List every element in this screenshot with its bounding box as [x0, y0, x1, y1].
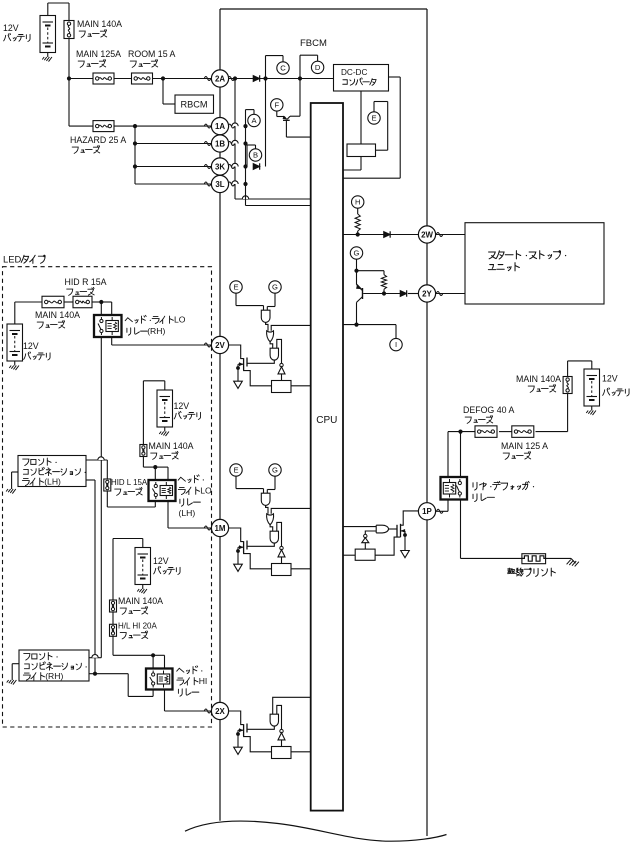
- svg-text:MAIN 140A: MAIN 140A: [35, 310, 80, 320]
- svg-text:DC-DC: DC-DC: [341, 68, 367, 77]
- svg-text:(LH): (LH): [179, 508, 196, 518]
- svg-text:12V: 12V: [153, 556, 169, 566]
- svg-text:2W: 2W: [421, 230, 433, 239]
- svg-text:MAIN 140A: MAIN 140A: [77, 19, 122, 29]
- svg-text:MAIN 140A: MAIN 140A: [149, 441, 194, 451]
- svg-text:H: H: [355, 198, 360, 207]
- svg-text:2A: 2A: [215, 74, 225, 83]
- svg-text:1P: 1P: [422, 507, 432, 516]
- svg-text:(RH): (RH): [147, 326, 165, 336]
- svg-text:E: E: [233, 466, 238, 475]
- svg-text:D: D: [315, 63, 321, 72]
- svg-text:12V: 12V: [174, 401, 190, 411]
- svg-text:LO: LO: [200, 486, 212, 496]
- svg-text:H/L HI 20A: H/L HI 20A: [118, 622, 157, 631]
- svg-text:3L: 3L: [215, 180, 224, 189]
- svg-text:F: F: [274, 101, 279, 110]
- svg-text:FBCM: FBCM: [300, 38, 327, 49]
- svg-text:MAIN 125A: MAIN 125A: [76, 49, 121, 59]
- svg-text:G: G: [272, 283, 278, 292]
- svg-text:1B: 1B: [215, 139, 225, 148]
- svg-text:2X: 2X: [215, 707, 225, 716]
- svg-text:MAIN 140A: MAIN 140A: [118, 596, 163, 606]
- svg-text:(RH): (RH): [45, 671, 63, 681]
- svg-text:MAIN 125 A: MAIN 125 A: [501, 441, 548, 451]
- svg-text:G: G: [354, 249, 360, 258]
- svg-text:DEFOG 40 A: DEFOG 40 A: [463, 405, 514, 415]
- svg-text:ROOM 15 A: ROOM 15 A: [128, 49, 176, 59]
- svg-text:12V: 12V: [23, 341, 39, 351]
- svg-text:RBCM: RBCM: [180, 100, 207, 110]
- svg-text:CPU: CPU: [316, 415, 337, 426]
- svg-text:(LH): (LH): [44, 477, 61, 487]
- svg-text:C: C: [280, 64, 286, 73]
- svg-text:B: B: [253, 151, 258, 160]
- svg-text:2Y: 2Y: [422, 289, 432, 298]
- svg-text:I: I: [395, 340, 397, 349]
- svg-text:MAIN 140A: MAIN 140A: [516, 374, 561, 384]
- svg-text:LED: LED: [3, 253, 21, 264]
- svg-text:E: E: [233, 283, 238, 292]
- svg-text:E: E: [371, 114, 376, 123]
- svg-text:HI: HI: [199, 676, 208, 686]
- svg-text:HID L 15A: HID L 15A: [111, 478, 148, 487]
- svg-text:HAZARD 25 A: HAZARD 25 A: [70, 135, 126, 145]
- svg-text:1A: 1A: [215, 122, 225, 131]
- svg-text:12V: 12V: [602, 374, 618, 384]
- svg-text:G: G: [272, 466, 278, 475]
- svg-text:2V: 2V: [215, 341, 225, 350]
- svg-text:1M: 1M: [215, 524, 226, 533]
- svg-text:3K: 3K: [215, 162, 225, 171]
- svg-text:12V: 12V: [3, 23, 19, 33]
- svg-text:LO: LO: [174, 315, 186, 325]
- svg-text:HID R 15A: HID R 15A: [65, 277, 107, 287]
